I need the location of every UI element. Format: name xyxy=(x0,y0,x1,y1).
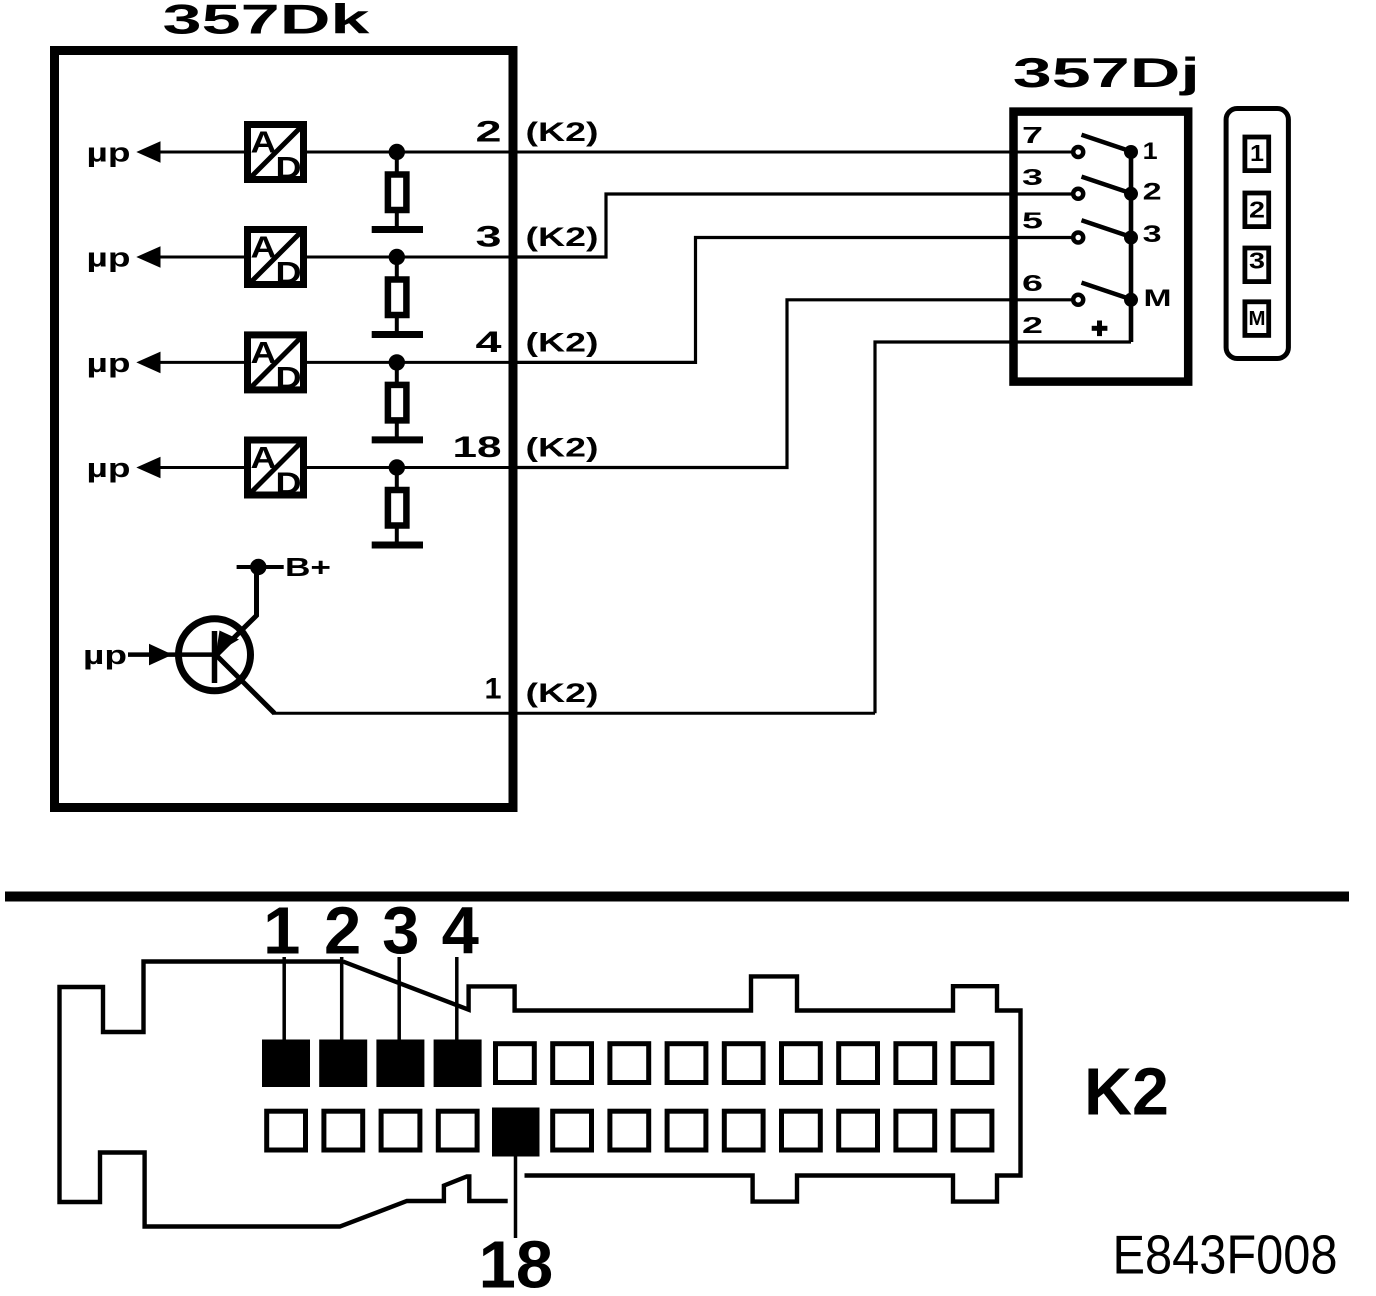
pin cavity (bottom row) xyxy=(267,1111,306,1150)
junction node (row 1) xyxy=(389,144,405,160)
pin cavity (bottom row) xyxy=(896,1111,935,1150)
pin 1 (filled) xyxy=(262,1040,310,1088)
leader line pin 2 xyxy=(340,957,344,1040)
separator line xyxy=(5,892,1349,902)
resistor (row 4) xyxy=(388,490,407,526)
wire resistor to ground (row 4) xyxy=(395,526,399,543)
svg-text:(K2): (K2) xyxy=(526,433,599,463)
svg-text:18: 18 xyxy=(479,1228,554,1296)
svg-text:1: 1 xyxy=(1250,140,1264,166)
leader line pin 3 xyxy=(397,957,401,1040)
svg-text:(K2): (K2) xyxy=(526,327,599,357)
wire node to resistor (row 3) xyxy=(395,362,399,384)
svg-text:1: 1 xyxy=(263,894,300,969)
legend cavity 2 xyxy=(1245,193,1269,227)
pin cavity (bottom row) xyxy=(953,1111,992,1150)
ground (row 3) xyxy=(372,436,423,443)
pin cavity (top row) xyxy=(610,1044,649,1083)
leader line pin 4 xyxy=(455,957,459,1040)
wire uP arrow to A/D (row 2) xyxy=(158,256,247,259)
svg-text:357Dj: 357Dj xyxy=(1013,49,1200,96)
wire A/D to pin 18 (row 4) xyxy=(307,466,513,469)
pin cavity (bottom row) xyxy=(438,1111,477,1150)
arrow into transistor base xyxy=(149,644,173,666)
wire node to resistor (row 1) xyxy=(395,152,399,174)
svg-text:A: A xyxy=(251,125,277,160)
pin cavity (bottom row) xyxy=(381,1111,420,1150)
svg-text:M: M xyxy=(1249,308,1266,330)
wire uP arrow to A/D (row 4) xyxy=(158,466,247,469)
svg-text:4: 4 xyxy=(476,326,502,359)
wire node to resistor (row 4) xyxy=(395,468,399,490)
A/D converter block (row 4) xyxy=(248,440,304,500)
wire uP arrow to A/D (row 1) xyxy=(158,151,247,154)
svg-text:18: 18 xyxy=(453,431,502,464)
wire pin 2 to 357Dj pin 7 xyxy=(513,151,1072,154)
resistor (row 1) xyxy=(388,175,407,211)
svg-text:357Dk: 357Dk xyxy=(163,0,371,43)
pin cavity (top row) xyxy=(896,1044,935,1083)
pin cavity (top row) xyxy=(724,1044,763,1083)
junction node (row 2) xyxy=(389,249,405,265)
connector K2 housing outline (left plug section) xyxy=(60,962,508,1227)
svg-text:1: 1 xyxy=(1143,138,1158,165)
svg-text:D: D xyxy=(276,360,302,395)
wire A/D to pin 3 (row 2) xyxy=(307,256,513,259)
svg-text:(K2): (K2) xyxy=(526,678,599,708)
leader line pin 1 xyxy=(282,957,286,1040)
svg-text:5: 5 xyxy=(1022,208,1043,234)
wire A/D to pin 4 (row 3) xyxy=(307,361,513,364)
plus symbol xyxy=(1092,326,1108,331)
svg-text:K2: K2 xyxy=(1084,1055,1169,1130)
pin cavity (bottom row) xyxy=(782,1111,821,1150)
switch blade (pin 5) xyxy=(1082,220,1127,235)
pin cavity (top row) xyxy=(667,1044,706,1083)
svg-text:B+: B+ xyxy=(285,552,331,582)
switch contact circle (pin 7) xyxy=(1073,147,1083,157)
wire pin 3 to 357Dj pin 3 xyxy=(513,194,1072,257)
svg-text:M: M xyxy=(1144,285,1172,312)
node B+ xyxy=(250,559,266,575)
pin cavity (bottom row) xyxy=(553,1111,592,1150)
svg-text:6: 6 xyxy=(1022,270,1043,296)
svg-text:4: 4 xyxy=(442,894,479,969)
pin cavity (bottom row) xyxy=(724,1111,763,1150)
svg-text:1: 1 xyxy=(485,673,502,706)
svg-text:µp: µp xyxy=(87,243,131,273)
svg-text:2: 2 xyxy=(1249,197,1265,223)
wire resistor to ground (row 3) xyxy=(395,420,399,437)
module box 357Dk xyxy=(55,51,514,808)
svg-text:(K2): (K2) xyxy=(526,117,599,147)
module box 357Dj xyxy=(1014,112,1189,382)
wire uP to transistor base xyxy=(128,652,214,657)
pin cavity (bottom row) xyxy=(610,1111,649,1150)
A/D converter block (row 3) xyxy=(248,335,304,395)
svg-text:2: 2 xyxy=(1143,179,1162,206)
junction node (row 3) xyxy=(389,354,405,370)
arrow to uP (row 2) xyxy=(136,246,160,268)
legend cavity 3 xyxy=(1245,248,1269,282)
svg-text:3: 3 xyxy=(476,221,502,254)
pin cavity (top row) xyxy=(839,1044,878,1083)
legend cavity 1 xyxy=(1245,137,1269,171)
svg-text:3: 3 xyxy=(1143,221,1162,248)
svg-text:µp: µp xyxy=(83,640,127,670)
svg-text:D: D xyxy=(276,255,302,290)
wire B+ tick xyxy=(237,565,284,569)
ground (row 2) xyxy=(372,331,423,338)
switch common node M xyxy=(1124,293,1138,307)
svg-text:A: A xyxy=(251,230,277,265)
switch common node 2 xyxy=(1124,187,1138,201)
pin cavity (top row) xyxy=(953,1044,992,1083)
wire uP arrow to A/D (row 3) xyxy=(158,361,247,364)
svg-text:µp: µp xyxy=(87,453,131,483)
resistor (row 3) xyxy=(388,385,407,421)
wire A/D to pin 2 (row 1) xyxy=(307,151,513,154)
switch blade (pin 6) xyxy=(1082,283,1127,298)
svg-text:3: 3 xyxy=(1249,248,1265,274)
arrow to uP (row 3) xyxy=(136,352,160,374)
pin cavity (top row) xyxy=(782,1044,821,1083)
pin cavity (bottom row) xyxy=(324,1111,363,1150)
pin 18 (filled) xyxy=(492,1108,540,1157)
pin cavity (top row) xyxy=(496,1044,535,1083)
svg-text:7: 7 xyxy=(1022,122,1043,148)
pin 2 (filled) xyxy=(319,1040,367,1088)
svg-text:D: D xyxy=(276,150,302,185)
transistor Q1 xyxy=(179,569,275,713)
wire pin 4 to 357Dj pin 5 xyxy=(513,238,1072,363)
switch blade (pin 3) xyxy=(1082,177,1127,192)
connector legend outline xyxy=(1226,109,1288,359)
pin cavity (bottom row) xyxy=(667,1111,706,1150)
svg-text:A: A xyxy=(251,440,277,475)
switch common bus xyxy=(1129,152,1134,342)
A/D converter block (row 2) xyxy=(248,230,304,290)
switch common node 3 xyxy=(1124,231,1138,245)
pin 4 (filled) xyxy=(434,1040,482,1088)
junction node (row 4) xyxy=(389,459,405,475)
pin cavity (bottom row) xyxy=(839,1111,878,1150)
connector K2 housing outline (main body) xyxy=(343,962,1021,1202)
switch common node 1 xyxy=(1124,145,1138,159)
wire node to resistor (row 2) xyxy=(395,257,399,279)
svg-text:3: 3 xyxy=(1022,164,1043,190)
wire pin 18 to 357Dj pin 6 xyxy=(513,300,1072,468)
wire resistor to ground (row 1) xyxy=(395,210,399,227)
ground (row 1) xyxy=(372,226,423,233)
switch contact circle (pin 6) xyxy=(1073,295,1083,305)
svg-text:2: 2 xyxy=(476,116,502,149)
wire pin 1 to 357Dj pin 2 (horizontal) xyxy=(273,712,875,715)
arrow to uP (row 4) xyxy=(136,457,160,479)
wire resistor to ground (row 2) xyxy=(395,315,399,332)
switch blade (pin 7) xyxy=(1082,135,1127,150)
pin 3 (filled) xyxy=(376,1040,424,1088)
svg-text:2: 2 xyxy=(1022,312,1043,338)
wire vertical pin1 riser to 357Dj pin 2 xyxy=(875,342,1131,713)
svg-text:µp: µp xyxy=(87,138,131,168)
resistor (row 2) xyxy=(388,280,407,316)
arrow to uP (row 1) xyxy=(136,141,160,163)
pin cavity (top row) xyxy=(553,1044,592,1083)
leader line pin 18 xyxy=(514,1157,518,1239)
ground (row 4) xyxy=(372,542,423,549)
legend cavity M xyxy=(1245,302,1269,336)
svg-text:A: A xyxy=(251,335,277,370)
svg-text:(K2): (K2) xyxy=(526,222,599,252)
svg-text:µp: µp xyxy=(87,348,131,378)
svg-text:D: D xyxy=(276,465,302,500)
A/D converter block (row 1) xyxy=(248,125,304,185)
switch contact circle (pin 3) xyxy=(1073,189,1083,199)
switch contact circle (pin 5) xyxy=(1073,233,1083,243)
svg-text:E843F008: E843F008 xyxy=(1113,1224,1338,1286)
